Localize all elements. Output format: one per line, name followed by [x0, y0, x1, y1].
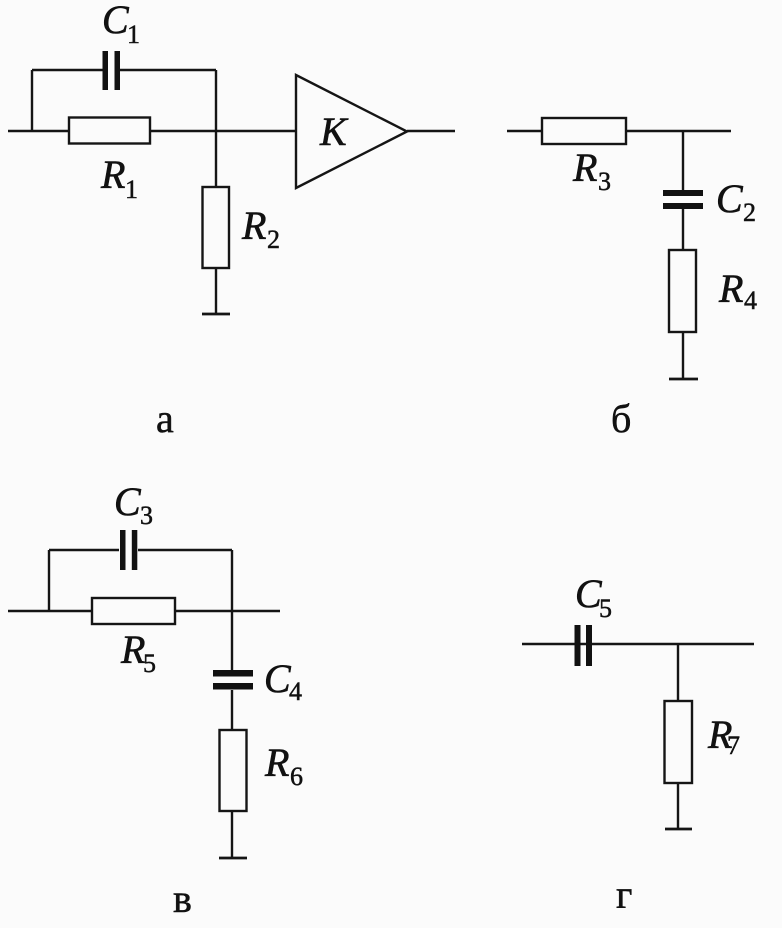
svg-text:5: 5	[599, 594, 612, 623]
svg-text:5: 5	[143, 649, 156, 678]
svg-text:2: 2	[743, 198, 756, 227]
svg-text:C: C	[264, 656, 292, 701]
svg-text:1: 1	[125, 175, 138, 204]
svg-text:R: R	[120, 627, 145, 672]
svg-text:1: 1	[127, 20, 140, 49]
svg-text:C: C	[114, 479, 142, 524]
svg-text:а: а	[156, 396, 174, 441]
svg-text:3: 3	[598, 167, 611, 196]
svg-text:4: 4	[289, 677, 302, 706]
svg-text:R: R	[100, 152, 125, 197]
svg-text:3: 3	[140, 501, 153, 530]
svg-text:в: в	[173, 876, 192, 921]
svg-text:7: 7	[727, 731, 740, 760]
svg-text:R: R	[241, 203, 266, 248]
svg-text:2: 2	[267, 225, 280, 254]
svg-text:б: б	[611, 396, 631, 441]
svg-text:R: R	[718, 266, 743, 311]
svg-text:C: C	[102, 0, 130, 42]
svg-text:6: 6	[290, 762, 303, 791]
svg-text:R: R	[264, 740, 289, 785]
svg-text:C: C	[716, 176, 744, 221]
svg-text:4: 4	[744, 286, 757, 315]
svg-text:г: г	[616, 872, 632, 917]
svg-text:K: K	[319, 109, 349, 154]
svg-text:R: R	[572, 145, 597, 190]
